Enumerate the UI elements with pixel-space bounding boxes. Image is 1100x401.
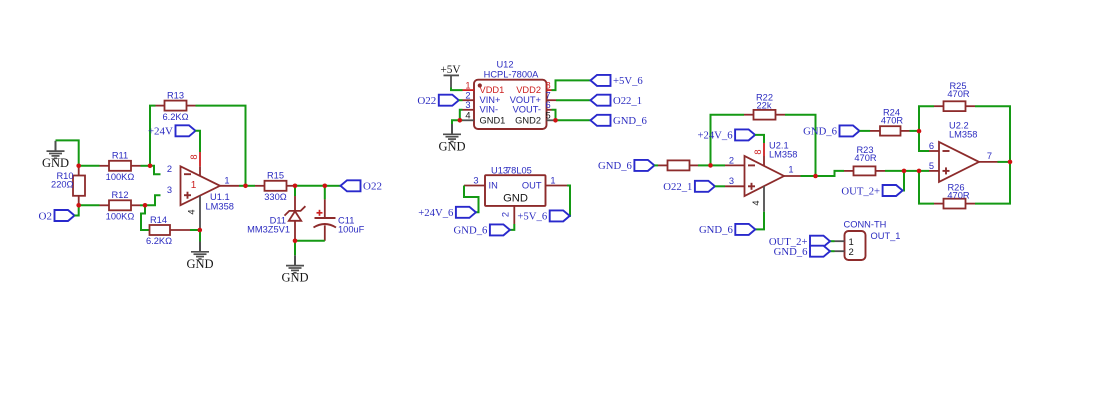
wire node down to OUT_2+ flag [903,171,904,191]
U13 pin 1 stub [546,185,568,187]
svg-text:6: 6 [929,141,934,151]
wire pin 7 to node [998,161,1011,163]
svg-text:VDD1: VDD1 [480,85,505,95]
svg-text:4: 4 [751,200,761,205]
resistor R22 22k (feedback) [744,114,754,116]
svg-text:+5V: +5V [440,64,461,76]
svg-text:+24V_6: +24V_6 [697,130,733,142]
wire O22 to pin 2 [459,99,463,101]
svg-text:2: 2 [501,212,511,217]
svg-text:VDD2: VDD2 [516,85,541,95]
svg-text:GND: GND [281,271,308,285]
node junction R10-bottom/R12-left [76,203,81,208]
node junction pin4/R14/GND [198,228,203,233]
node junction pin7/R25/R26 [1008,160,1013,165]
svg-text:3: 3 [465,100,470,110]
svg-text:1: 1 [191,180,197,191]
wire R21 to node [698,164,711,166]
resistor R10 220 ohm (vertical) [78,166,80,176]
wire node to op-amp pin 3 [145,195,161,205]
wire pin1 to node [239,185,246,187]
svg-text:+24V_6: +24V_6 [418,207,454,219]
svg-text:6: 6 [546,100,551,110]
svg-text:R12: R12 [111,190,128,200]
svg-text:R13: R13 [167,90,184,100]
net flag OUT_2+ (to conn) [810,236,830,247]
net flag O22_1 [591,95,611,106]
svg-text:GND1: GND1 [480,115,506,125]
wire R13 to output node [196,106,246,186]
CONN-TH pin 1 [835,240,845,242]
svg-text:GND_6: GND_6 [803,126,837,138]
wire pin 3 to +24V_6 flag [464,186,479,213]
U12 pin 8 stub [547,89,552,91]
wire pin 1 to +5V_6 flag [567,186,570,216]
svg-text:2: 2 [849,247,854,258]
svg-text:220Ω: 220Ω [51,180,74,190]
U12 pin 1 stub [463,89,475,91]
wire pin 7 to O22_1 flag [556,99,591,101]
svg-text:6.2KΩ: 6.2KΩ [146,236,172,246]
wire R24 to node [910,130,920,132]
wire node down to R26 [975,162,1010,204]
svg-text:R15: R15 [267,171,284,181]
svg-text:VIN+: VIN+ [480,95,501,105]
net flag +5V_6 [591,75,611,86]
wire OUT_2+ flag to pin 1 [830,240,835,242]
pin 4 stub [199,196,201,229]
net flag GND_6 (R21 input) [634,160,654,171]
wire node to pin 5 net [904,170,919,172]
wire GND_6 to R24 [860,130,871,132]
svg-text:1: 1 [465,81,470,91]
resistor R13 6.2K ohm (feedback) [156,105,165,107]
svg-text:LM358: LM358 [949,130,977,140]
op-amp U2.2 pin 5 stub [929,170,939,172]
wire node to pin 5 [919,170,929,172]
op-amp U2.2 pin 6 stub [929,150,939,152]
svg-text:O22: O22 [417,95,436,107]
wire node to op-amp pin 2 [150,166,161,174]
svg-text:7: 7 [546,91,551,101]
svg-text:4: 4 [465,111,470,121]
svg-text:GND: GND [503,193,528,205]
node junction output/R13/R15 [243,184,248,189]
wire node up to R13 [150,106,156,166]
node junction R26/pin5 [917,169,922,174]
wire node up to R22 [711,115,745,166]
svg-text:330Ω: 330Ω [264,192,287,202]
U12 pin 4 stub [463,119,475,121]
svg-text:GND: GND [438,139,465,153]
svg-text:VIN-: VIN- [480,105,499,115]
wire node to op-amp pin 2 [711,164,726,166]
U2.1 pin 4 stub [763,186,765,212]
svg-text:LM358: LM358 [206,201,234,211]
svg-text:MM3Z5V1: MM3Z5V1 [247,224,290,234]
svg-text:VOUT+: VOUT+ [510,95,541,105]
wire pin 4 to GND_6 flag [755,212,764,230]
resistor R24 470R [870,130,880,132]
node junction R15/D11 [293,184,298,189]
wire R14 to ground node [190,229,200,231]
svg-text:O22: O22 [363,181,382,193]
resistor R15 330 ohm [255,185,265,187]
resistor R23 470R [844,170,854,172]
node junction R23/OUT_2+ [902,169,907,174]
wire pin 8 to +5V_6 flag [552,80,591,90]
resistor R14 6.2K ohm [150,225,171,235]
net flag O22 [341,180,361,191]
op-amp output pin 1 [220,185,239,187]
net flag O2 [55,210,75,221]
node junction pin3/pin4 gnd [458,118,463,123]
svg-text:5: 5 [929,161,934,171]
net flag +24V [176,125,196,136]
wire node to R12 [79,204,100,206]
svg-text:1: 1 [550,175,555,185]
svg-text:OUT_2+: OUT_2+ [841,185,880,197]
svg-text:100KΩ: 100KΩ [106,172,135,182]
svg-text:R11: R11 [112,151,128,161]
svg-text:78L05: 78L05 [506,165,532,175]
wire node up to R25 [919,106,934,131]
U2.2 output pin 7 [979,161,998,163]
svg-text:8: 8 [753,149,763,154]
zener diode D11 MM3Z5V1 [294,186,296,196]
node junction R12-right/R14/pin3 [143,203,148,208]
wire to ground [199,230,201,242]
svg-text:22k: 22k [757,101,772,111]
node junction pin5/pin6 [553,118,558,123]
svg-text:GND_6: GND_6 [699,224,733,236]
resistor R25 470R (feedback) [934,105,944,107]
svg-text:O22_1: O22_1 [663,181,692,193]
wire +5V to U12 pin 1 [451,88,463,91]
wire pin 2 to GND_6 flag [510,224,514,230]
wire to ground [294,241,296,256]
svg-text:100uF: 100uF [338,224,365,234]
resistor R11 100K ohm [100,165,110,167]
svg-text:1: 1 [224,175,229,185]
op-amp U2.1 pin 2 stub [725,164,745,166]
svg-text:3: 3 [473,175,478,185]
U12 pin 6 stub [547,109,552,111]
wire GND_6 flag to pin 2 [830,250,835,252]
wire node to R15 [246,185,256,187]
net flag GND_6 (to conn) [810,246,830,257]
wire pin 1 to node [801,175,816,177]
svg-text:GND_6: GND_6 [598,160,632,172]
net flag O22_1 (to pin 3) [695,181,715,192]
net flag +24V_6 (U13) [456,207,476,218]
svg-text:CONN-TH: CONN-TH [844,220,887,230]
svg-text:O2: O2 [39,210,52,222]
svg-text:+5V_6: +5V_6 [613,75,643,87]
svg-text:IN: IN [489,181,498,191]
U13 pin 2 stub [513,206,515,224]
svg-text:5: 5 [546,111,551,121]
op-amp U2.2 LM358 [939,142,979,182]
net flag GND_6 (R24 input) [840,125,860,136]
net flag +5V_6 (U13 out) [550,210,570,221]
wire R25 to output node [975,106,1010,162]
op-amp U2.1 pin 8 stub [763,143,765,156]
svg-text:GND_6: GND_6 [613,115,647,127]
U13 pin 3 stub [464,185,485,187]
svg-text:2: 2 [167,164,172,174]
ground GND (below D11) [294,255,296,265]
resistor R12 100K ohm [100,204,110,206]
net flag +24V_6 (U2.1 power) [735,129,755,140]
wire to O22 flag [325,185,341,187]
svg-text:1: 1 [788,164,793,174]
wire pin 6 down to pin 5 net [552,110,556,121]
U2.1 output pin 1 [784,175,801,177]
svg-text:U12: U12 [496,59,513,69]
wire R12 to node [140,204,145,206]
U12 pin 5 stub [547,119,557,121]
U12 pin 3 stub [463,109,475,111]
wire node to R11 [79,165,100,167]
svg-text:7: 7 [987,151,992,161]
node junction R10-top/R11-left [76,164,81,169]
svg-text:6.2KΩ: 6.2KΩ [162,112,188,122]
wire pin 4 to ground [452,120,463,124]
wire from GND to R10/R11 node [56,140,79,165]
svg-text:GND_6: GND_6 [454,225,488,237]
svg-text:VOUT-: VOUT- [513,105,541,115]
node junction R11-right/R13-left/pin2 [148,164,153,169]
wire C11 to GND node [295,240,325,242]
svg-text:GND: GND [42,156,69,170]
net flag GND_6 (U12) [591,115,611,126]
wire GND_6 to R21 [654,164,658,166]
ground GND (U12) [451,124,453,134]
wire O2 flag to node [75,205,79,215]
svg-text:2: 2 [465,91,470,101]
wire node down to pin 6 [919,131,929,151]
node junction C11 [323,184,328,189]
svg-text:R14: R14 [150,215,167,225]
svg-text:470R: 470R [854,153,877,163]
svg-text:3: 3 [167,185,172,195]
svg-text:3: 3 [729,176,734,186]
svg-text:OUT_1: OUT_1 [871,231,901,241]
op-amp U1.1 LM358 [181,166,221,205]
op-amp U2.1 LM358 [745,156,785,196]
resistor R26 470R (feedback) [966,203,976,205]
wire R22 to output node [785,115,816,176]
svg-text:8: 8 [189,154,199,159]
ground GND (top-left) [55,141,57,151]
net flag O22 (input) [439,95,459,106]
svg-text:OUT: OUT [522,181,542,191]
svg-text:GND: GND [186,257,213,271]
node junction R21/R22/pin2 [708,163,713,168]
svg-text:O22_1: O22_1 [613,95,642,107]
svg-text:4: 4 [186,209,196,214]
wire R26 to pin 5 node [919,171,934,204]
svg-text:470R: 470R [947,89,970,99]
ground GND (below U1.1) [199,242,201,252]
op-amp U1.1 pin 8 stub [199,152,201,166]
wire node to R23 [816,171,845,176]
svg-text:GND2: GND2 [515,115,541,125]
capacitor C11 100uF (polarized) [324,186,326,200]
svg-text:470R: 470R [881,116,904,126]
wire to C11 node [295,185,325,187]
wire +24V to op-amp pin 8 [196,131,201,152]
svg-text:470R: 470R [947,190,970,200]
svg-text:+5V_6: +5V_6 [517,211,547,223]
svg-text:LM358: LM358 [769,149,797,159]
net flag GND_6 (U2.1 gnd) [735,224,755,235]
wire node down to R14 [141,205,150,230]
node junction R24/R25/pin6 [917,129,922,134]
wire pin 3 down to gnd net [460,110,463,121]
op-amp U2.1 pin 3 stub [725,185,745,187]
node junction D11/C11/GND [293,239,298,244]
wire R23 to node [885,170,904,172]
wire O22_1 to pin 3 [715,185,725,187]
wire R11 to node [141,165,151,167]
svg-text:+24V: +24V [148,126,173,138]
wire +24V_6 to pin 8 [755,135,764,143]
svg-text:2: 2 [729,155,734,165]
node junction output/R22/R23 [813,174,818,179]
U12 pin 2 stub [463,99,475,101]
svg-text:HCPL-7800A: HCPL-7800A [484,69,540,79]
net flag GND_6 (U13) [490,224,510,235]
resistor R21 10k [658,164,668,166]
wire pin 5 to GND_6 flag [556,119,591,121]
svg-text:8: 8 [546,81,551,91]
svg-text:100KΩ: 100KΩ [106,212,135,222]
svg-text:GND_6: GND_6 [774,246,808,258]
CONN-TH pin 2 [835,250,845,252]
net flag OUT_2+ [883,185,903,196]
U12 pin 7 stub [547,99,557,101]
